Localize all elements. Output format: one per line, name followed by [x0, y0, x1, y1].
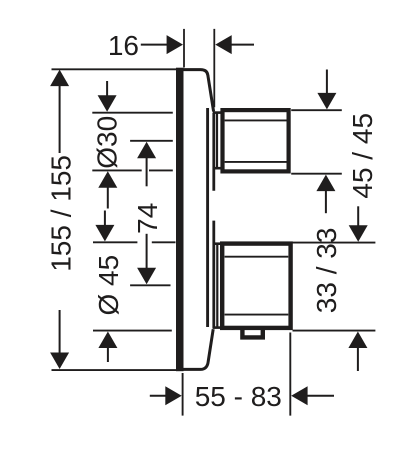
- wire dim16 left extension line: [183, 29, 185, 68]
- node dim5583 left arrow: [165, 386, 181, 405]
- svg-text:155 / 155: 155 / 155: [45, 155, 76, 272]
- wire dim3333 top arrow tail: [357, 206, 359, 227]
- svg-text:55 - 83: 55 - 83: [195, 381, 282, 412]
- upper stem bottom edge: [213, 167, 221, 170]
- upper knob knurl line top: [225, 119, 287, 121]
- upper knob body: [223, 110, 289, 171]
- wire dia30 bottom extension line left part: [92, 169, 141, 171]
- node dim4545 bottom arrow: [316, 175, 335, 192]
- node dia45 bottom arrow: [98, 332, 117, 349]
- wire dim74 top extension line knob1 center: [130, 140, 173, 142]
- plate face seam line: [206, 108, 209, 327]
- wire dia45 bottom extension line: [93, 330, 172, 332]
- wire dia45 bottom arrow tail: [107, 348, 109, 363]
- svg-text:45 / 45: 45 / 45: [347, 113, 378, 199]
- lower knob knurl line top: [225, 256, 289, 258]
- sleeve front line lower: [212, 221, 215, 329]
- node dia45 top arrow: [95, 225, 114, 242]
- wire dim74 line lower segment: [146, 234, 148, 270]
- wire dim155 line upper segment: [59, 85, 61, 153]
- wire dim5583 left tail: [150, 395, 166, 397]
- svg-text:74: 74: [132, 203, 163, 234]
- plate bottom chamfer and bottom edge: [176, 329, 213, 369]
- node dim74 top arrow: [137, 142, 156, 159]
- svg-text:Ø30: Ø30: [92, 116, 123, 169]
- upper knob knurl line bottom: [225, 161, 287, 163]
- wire dia30 top arrow tail: [106, 81, 108, 97]
- node dim155 bottom arrow: [50, 353, 69, 370]
- lower knob tab: [242, 329, 262, 337]
- node dim3333 bottom arrow: [348, 332, 367, 349]
- wire bottom extension line y370: [52, 369, 177, 371]
- wire dim3333 bottom extension line: [293, 330, 376, 332]
- wire dim3333 top extension line: [293, 242, 376, 244]
- wire dim4545 top extension line: [291, 109, 342, 111]
- wire dim3333 bottom arrow tail: [357, 348, 359, 372]
- wire dim5583 right tail: [307, 395, 334, 397]
- wire dim16 right tail: [232, 44, 255, 46]
- lower stem top edge: [213, 242, 221, 245]
- wire dia45 top extension line right part: [152, 241, 176, 243]
- lower knob knurl line bottom: [225, 314, 289, 316]
- node dim74 bottom arrow: [137, 268, 156, 285]
- wire dia30 bottom extension line right part: [149, 169, 173, 171]
- plate back bar: [176, 68, 184, 372]
- node dim16 left arrow: [167, 35, 183, 54]
- node dim4545 top arrow: [317, 93, 336, 110]
- plate top edge and chamfer: [176, 70, 214, 112]
- node dim5583 right arrow: [291, 386, 307, 405]
- svg-text:Ø 45: Ø 45: [93, 255, 124, 316]
- wire dim155 line lower segment: [59, 310, 61, 354]
- svg-text:16: 16: [108, 30, 139, 61]
- upper stem wall: [216, 113, 218, 168]
- wire dia30 top extension line: [92, 112, 173, 114]
- lower stem bottom edge: [213, 326, 221, 329]
- wire dia30 bottom arrow tail: [107, 187, 109, 209]
- node dim3333 top arrow: [349, 225, 368, 242]
- wire dim5583 left extension line: [182, 373, 184, 416]
- wire dia45 top extension line left part: [93, 241, 137, 243]
- lower stem wall: [216, 244, 218, 327]
- wire dim4545 top arrow tail: [326, 70, 328, 95]
- node dia30 top arrow: [98, 95, 117, 112]
- wire dia45 top arrow tail: [104, 211, 106, 228]
- node dia30 bottom arrow: [98, 171, 117, 188]
- lower knob body: [222, 244, 290, 328]
- wire dim4545 bottom extension line: [291, 173, 342, 175]
- node dim16 right arrow: [215, 35, 231, 54]
- upper stem top edge: [213, 111, 221, 114]
- sleeve front line upper: [212, 113, 215, 191]
- wire dim5583 right extension line: [289, 333, 291, 416]
- wire dim16 left tail: [141, 44, 167, 46]
- wire dim74 bottom extension line knob2 center: [130, 284, 170, 286]
- wire dim74 line upper segment: [146, 157, 148, 186]
- wire top extension line y69: [52, 68, 177, 70]
- svg-text:33 / 33: 33 / 33: [311, 228, 342, 314]
- node dim155 top arrow: [50, 70, 69, 87]
- wire dim16 right extension line: [213, 29, 215, 107]
- wire dim4545 bottom arrow tail: [325, 191, 327, 214]
